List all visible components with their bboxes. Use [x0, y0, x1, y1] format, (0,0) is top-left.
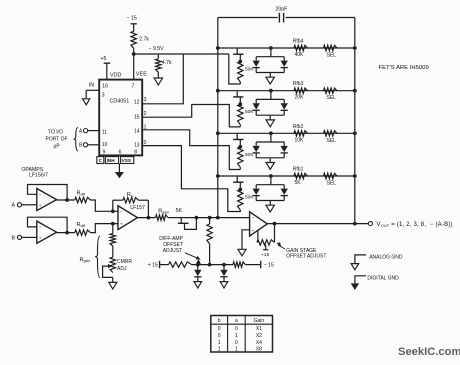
- transistor Q5 bypass FET: [178, 216, 198, 230]
- svg-text:7: 7: [132, 83, 135, 89]
- digital ground legend: [351, 275, 399, 290]
- wire row 1 drive down to 50K: [229, 54, 241, 84]
- resistor Rfb1 5K: [293, 167, 308, 187]
- resistor Rdiff B: [75, 222, 91, 236]
- svg-text:a: a: [235, 318, 238, 324]
- wire Rdiff A to LF157 minus: [90, 200, 118, 211]
- label Rgain with brace: [80, 236, 101, 278]
- resistor 2.7k: [131, 31, 149, 48]
- svg-text:X4: X4: [256, 340, 262, 346]
- terminal A address: [79, 128, 99, 134]
- diode pair D2 switch: [253, 89, 288, 115]
- wire summing node to gain stage: [196, 216, 249, 220]
- svg-text:VSS: VSS: [122, 158, 131, 163]
- svg-text:2: 2: [144, 111, 147, 117]
- svg-text:0: 0: [218, 326, 221, 332]
- svg-text:5K: 5K: [295, 180, 302, 186]
- resistor 50K row 4: [238, 190, 255, 213]
- resistor Rdiff A: [75, 191, 91, 203]
- diode clamp right: [220, 263, 228, 288]
- analog ground CMRR: [109, 277, 117, 289]
- terminal A input: [12, 203, 37, 209]
- svg-text:16: 16: [102, 83, 108, 89]
- wire op-amp B output: [57, 232, 75, 234]
- resistor 50K row 1: [238, 62, 255, 85]
- node -9.5V wire: [134, 46, 229, 54]
- wire row 3 feedback line: [216, 131, 357, 135]
- input terminal IN pin 3: [83, 83, 100, 105]
- svg-text:CMRR: CMRR: [117, 259, 132, 265]
- svg-text:0: 0: [235, 326, 238, 332]
- resistor 50K row 3: [238, 147, 255, 170]
- transistor Q3 switch FET: [233, 133, 243, 148]
- svg-text:X2: X2: [256, 333, 262, 339]
- svg-text:1: 1: [218, 347, 221, 353]
- svg-text:+: +: [39, 235, 42, 240]
- truth table gain select: [211, 316, 273, 353]
- transistor Q2 switch FET: [233, 91, 243, 106]
- resistor SEL row 1: [324, 45, 338, 58]
- resistor Rgain upper: [110, 224, 115, 258]
- svg-text:ANALOG GND: ANALOG GND: [369, 254, 403, 260]
- svg-text:20K: 20K: [295, 95, 305, 101]
- resistor Rfb4 40K: [293, 39, 308, 59]
- potentiometer CMRR ADJ: [103, 257, 133, 277]
- op-amp mux IC U1 CD4051 body: [99, 72, 147, 156]
- svg-text:SEL: SEL: [327, 138, 337, 144]
- svg-text:3: 3: [144, 97, 147, 103]
- wire row 2 feedback line: [216, 89, 357, 93]
- digital ground below chip: [115, 164, 124, 179]
- svg-text:1: 1: [218, 340, 221, 346]
- svg-text:10K: 10K: [295, 137, 305, 143]
- svg-text:+: +: [39, 203, 42, 208]
- wire output bus right vertical: [354, 18, 356, 224]
- transistor Q4 switch FET: [233, 176, 243, 191]
- svg-text:40K: 40K: [295, 52, 305, 58]
- wire Rdiff B to LF157 plus: [90, 222, 118, 233]
- op-amp U5 gain stage: [250, 212, 268, 236]
- svg-text:3: 3: [102, 93, 105, 99]
- svg-text:0: 0: [235, 340, 238, 346]
- svg-text:ADJUST: ADJUST: [163, 248, 182, 254]
- analog ground below 4.7k: [154, 72, 162, 85]
- svg-text:+15: +15: [261, 252, 269, 258]
- svg-text:0: 0: [218, 333, 221, 339]
- transistor Q1 switch FET: [233, 48, 243, 63]
- svg-text:13: 13: [134, 143, 140, 149]
- potentiometer diff-amp offset: [169, 259, 234, 267]
- svg-text:5K: 5K: [176, 208, 183, 214]
- svg-text:0: 0: [144, 140, 147, 146]
- svg-text:9: 9: [103, 150, 106, 156]
- label DIFF-AMP OFFSET ADJUST: [159, 236, 200, 260]
- svg-text:SEL: SEL: [327, 53, 337, 59]
- svg-text:2.7k: 2.7k: [139, 37, 149, 43]
- pin label VSS box: [121, 157, 134, 164]
- analog ground row 1: [266, 73, 274, 85]
- wire row 4 feedback line: [216, 174, 357, 178]
- svg-text:SEL: SEL: [327, 95, 337, 101]
- wire pin 14 to row 3 drive: [142, 130, 240, 170]
- svg-text:− 15: − 15: [127, 16, 137, 22]
- svg-text:6: 6: [119, 150, 122, 156]
- svg-text:− 15: − 15: [264, 263, 274, 269]
- diode pair D1 switch: [253, 46, 288, 72]
- terminal B address: [79, 143, 99, 149]
- svg-text:+5: +5: [101, 56, 107, 62]
- svg-text:A: A: [12, 203, 16, 209]
- wire pin 13 to row 4 drive: [142, 146, 240, 212]
- pin label INH box: [105, 157, 118, 164]
- brace for A B port lines: [74, 128, 79, 151]
- label OPAMPS LF156/7: [21, 167, 48, 179]
- wire gain stage output Vout: [267, 222, 372, 226]
- terminal +15 rail: [148, 261, 169, 269]
- op-amp U4 LF157: [118, 204, 148, 230]
- svg-text:−: −: [39, 192, 42, 197]
- svg-text:CD4051: CD4051: [110, 99, 130, 105]
- svg-text:µP: µP: [54, 143, 61, 149]
- svg-text:1: 1: [235, 333, 238, 339]
- wire pin 12 to row 1 drive: [142, 54, 183, 104]
- svg-text:X1: X1: [256, 326, 262, 332]
- svg-text:b: b: [218, 318, 221, 324]
- svg-text:SeekIC.com: SeekIC.com: [398, 346, 460, 358]
- svg-text:11: 11: [102, 130, 107, 136]
- svg-text:−: −: [39, 225, 42, 230]
- analog ground legend: [351, 254, 403, 269]
- svg-text:X8: X8: [256, 347, 262, 353]
- svg-text:−: −: [252, 216, 255, 221]
- svg-text:IN: IN: [89, 83, 94, 89]
- svg-text:INH: INH: [107, 158, 116, 163]
- diode pair D4 switch: [253, 174, 288, 200]
- svg-text:FET'S ARE IH5009: FET'S ARE IH5009: [379, 65, 429, 71]
- svg-text:10: 10: [102, 142, 108, 148]
- pin label C box: [97, 157, 104, 164]
- potentiometer gain stage offset: [257, 222, 277, 258]
- op-amp U2 buffer A: [37, 189, 57, 211]
- op-amp U3 buffer B: [37, 221, 57, 243]
- svg-text:+: +: [252, 228, 255, 233]
- wire row 1 feedback line: [216, 46, 357, 50]
- svg-text:LF156/7: LF156/7: [29, 173, 48, 179]
- resistor Rs feedback: [111, 192, 150, 220]
- resistor 50K row 2: [238, 104, 255, 127]
- analog ground row 3: [266, 158, 274, 170]
- svg-text:14: 14: [134, 128, 140, 134]
- wire summing bus left vertical: [216, 18, 220, 220]
- wire feedback op-amp A: [28, 185, 70, 202]
- svg-text:VEE: VEE: [136, 72, 147, 78]
- svg-text:+ 15: + 15: [148, 262, 158, 268]
- svg-text:LF157: LF157: [130, 205, 145, 211]
- wire LF157 output: [138, 217, 156, 219]
- svg-text:20pF: 20pF: [276, 7, 288, 13]
- analog ground row 4: [266, 201, 274, 213]
- resistor rail right: [233, 261, 274, 269]
- svg-text:VDD: VDD: [110, 73, 121, 79]
- svg-text:− 9.5V: − 9.5V: [149, 46, 165, 52]
- diode clamp left: [194, 263, 202, 288]
- svg-text:PORT OF: PORT OF: [46, 136, 68, 142]
- wire top feedback rail: [218, 17, 355, 19]
- wire 2.7k to VEE pin 7: [132, 48, 136, 79]
- resistor Rfb3 20K: [293, 81, 308, 101]
- resistor SEL row 3: [324, 131, 338, 144]
- svg-text:12: 12: [134, 100, 140, 106]
- label GAIN STAGE OFFSET ADJUST: [276, 242, 326, 259]
- resistor Rfb2 10K: [293, 124, 308, 144]
- resistor 4.7k: [156, 54, 172, 72]
- wire op-amp A output: [57, 199, 75, 201]
- capacitor 20pF: [276, 7, 288, 23]
- wire gain stage plus to ground: [238, 230, 250, 256]
- terminal +5 supply: [101, 56, 111, 80]
- svg-text:8: 8: [134, 150, 137, 156]
- svg-text:DIGITAL GND: DIGITAL GND: [367, 275, 399, 281]
- wire feedback op-amp B: [28, 217, 70, 234]
- svg-text:+: +: [120, 222, 123, 227]
- resistor Rgain 5K: [156, 208, 183, 220]
- analog ground row 2: [266, 115, 274, 127]
- svg-text:B: B: [12, 235, 16, 241]
- wire pin 15 to row 2 drive: [142, 105, 240, 127]
- svg-text:4.7k: 4.7k: [162, 60, 172, 66]
- svg-text:1: 1: [235, 347, 238, 353]
- diode pair D3 switch: [253, 131, 288, 157]
- resistor SEL row 4: [324, 173, 338, 186]
- svg-text:TO I/O: TO I/O: [48, 129, 63, 135]
- svg-text:SEL: SEL: [327, 181, 337, 187]
- terminal B input: [12, 235, 37, 241]
- svg-text:−: −: [120, 209, 123, 214]
- terminal -15 supply: [127, 16, 137, 32]
- svg-text:15: 15: [134, 114, 140, 120]
- resistor SEL row 2: [324, 88, 338, 101]
- svg-text:ADJ: ADJ: [117, 266, 127, 272]
- label TO I/O PORT OF uP: [46, 129, 68, 149]
- svg-text:Gain: Gain: [254, 318, 265, 324]
- resistor offset feed: [207, 218, 212, 267]
- svg-text:OFFSET ADJUST: OFFSET ADJUST: [286, 254, 326, 260]
